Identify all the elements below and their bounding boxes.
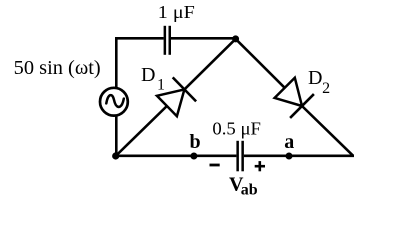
wire top node to D2 anode	[236, 39, 285, 88]
ac source V1 circle	[100, 88, 128, 116]
capacitor C2 0.5uF plates	[236, 141, 244, 172]
svg-text:1: 1	[157, 77, 165, 94]
svg-text:ab: ab	[241, 182, 258, 199]
node b junction	[190, 153, 197, 160]
wire bottom (right of C2)	[244, 155, 354, 158]
capacitor C1 1uF plates	[164, 26, 171, 55]
wire D2 cathode to bottom-right corner	[302, 106, 353, 156]
svg-text:2: 2	[322, 80, 330, 97]
svg-text:a: a	[284, 131, 294, 153]
svg-text:D: D	[308, 67, 322, 89]
node a junction	[286, 153, 293, 160]
ac source sine wave	[106, 95, 124, 107]
svg-text:0.5 μF: 0.5 μF	[212, 119, 261, 139]
diode D2 cathode bar	[290, 94, 314, 118]
wire D1 cathode to top node	[184, 39, 235, 90]
svg-text:1 μF: 1 μF	[158, 2, 195, 22]
node top junction	[232, 35, 239, 42]
wire bottom (left of C2)	[115, 155, 237, 158]
label polarity minus	[210, 164, 220, 167]
node bottom-left junction	[112, 152, 119, 159]
wire left vertical upper	[115, 37, 118, 87]
wire top-left horizontal (left of C1)	[115, 37, 164, 40]
label polarity plus	[255, 161, 265, 171]
diode D2 triangle	[275, 78, 302, 106]
svg-text:D: D	[141, 64, 155, 86]
diode D1 cathode bar	[173, 77, 196, 101]
wire top horizontal (right of C1)	[171, 37, 236, 40]
diode D1 triangle	[157, 89, 185, 116]
svg-text:50 sin (ωt): 50 sin (ωt)	[14, 57, 101, 79]
wire diagonal lower-left to D1 anode	[116, 106, 167, 156]
wire left vertical lower	[115, 116, 118, 156]
svg-text:b: b	[190, 131, 201, 153]
